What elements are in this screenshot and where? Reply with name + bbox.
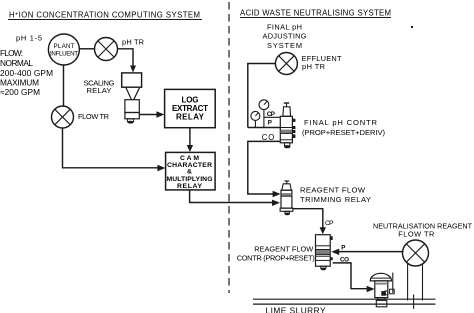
svg-text:200-400 GPM: 200-400 GPM — [0, 68, 53, 78]
label SCALING RELAY — [84, 78, 115, 95]
svg-text:RELAY: RELAY — [176, 113, 205, 122]
dashed system divider line — [228, 2, 230, 293]
svg-text:EXTRACT: EXTRACT — [172, 104, 208, 113]
svg-text:&: & — [187, 169, 192, 176]
svg-text:CP: CP — [325, 220, 334, 227]
scaling relay cylinder — [125, 100, 139, 124]
title left: H+ION CONCENTRATION COMPUTING SYSTEM — [8, 11, 202, 20]
effluent pH transmitter circle — [275, 53, 297, 75]
label FINAL pH CONTR (PROP+RESET+DERIV) — [302, 118, 385, 137]
svg-text:pH 1-5: pH 1-5 — [16, 33, 42, 42]
svg-text:RELAY: RELAY — [87, 86, 112, 95]
svg-text:≈200 GPM: ≈200 GPM — [0, 87, 40, 97]
node CP line into final pH controller — [264, 116, 281, 118]
scaling relay funnel — [126, 88, 140, 100]
svg-text:FINAL pH: FINAL pH — [267, 22, 302, 31]
scaling relay box — [122, 73, 142, 87]
wire trimming relay to reagent flow controller (with arrow) — [293, 209, 326, 235]
final pH controller U1 — [280, 103, 295, 149]
wire flow TR to cam relay (with arrow) — [63, 128, 166, 171]
svg-text:MULTIPLYING: MULTIPLYING — [167, 176, 213, 183]
svg-text:H+ION CONCENTRATION COMPUTING: H+ION CONCENTRATION COMPUTING SYSTEM — [9, 11, 200, 20]
neutralisation reagent flow transmitter circle — [403, 240, 429, 266]
svg-text:pH TR: pH TR — [302, 62, 325, 71]
svg-text:P: P — [341, 244, 345, 251]
svg-text:NORMAL: NORMAL — [0, 58, 33, 68]
reagent flow trimming relay device — [280, 181, 293, 216]
title right: ACID WASTE NEUTRALISING SYSTEM — [240, 8, 391, 17]
gauge P (pressure indicator) — [251, 111, 260, 127]
wire plant influent to pH TR — [80, 48, 96, 50]
wire effluent pH TR to final pH controller P port — [248, 64, 276, 128]
pipe risers from flow TR to lime slurry pipe — [408, 264, 423, 301]
svg-text:FLOW TR: FLOW TR — [78, 112, 109, 121]
control valve V1 — [370, 273, 394, 307]
svg-text:INFLUENT: INFLUENT — [50, 51, 78, 58]
wire controller CO to valve (with arrow) — [333, 263, 375, 292]
wire neutralisation reagent flow TR to controller P input (with arrow) — [331, 249, 403, 255]
svg-text:FLOW:: FLOW: — [0, 48, 23, 58]
svg-text:ADJUSTING: ADJUSTING — [263, 32, 307, 41]
svg-text:SYSTEM: SYSTEM — [267, 41, 302, 50]
svg-text:(PROP+RESET+DERIV): (PROP+RESET+DERIV) — [302, 128, 385, 137]
svg-text:LIME SLURRY: LIME SLURRY — [266, 306, 326, 313]
pipe lime slurry (double line) — [253, 299, 436, 304]
log extract relay box — [165, 89, 216, 127]
svg-text:TRIMMING RELAY: TRIMMING RELAY — [300, 195, 371, 204]
node P line into final pH controller — [248, 127, 281, 129]
wire log extract relay to cam relay (with arrow) — [187, 128, 193, 152]
label EFFLUENT pH TR — [302, 54, 342, 71]
cam character & multiplying relay box — [166, 152, 216, 190]
gauge CP (pressure indicator) — [259, 100, 269, 128]
svg-text:P: P — [268, 120, 272, 127]
flow transmitter circle (FLOW TR) — [52, 106, 74, 128]
label REAGENT FLOW CONTR (PROP+RESET) — [237, 245, 315, 263]
svg-text:ACID WASTE NEUTRALISING SYSTEM: ACID WASTE NEUTRALISING SYSTEM — [240, 8, 391, 17]
wire cam relay to reagent flow trimming relay (with arrow) — [190, 190, 280, 206]
plant influent circle — [48, 34, 79, 65]
pipe joint tick — [413, 295, 415, 309]
svg-text:PLANT: PLANT — [54, 43, 75, 50]
svg-text:pH TR: pH TR — [122, 38, 144, 47]
label NEUTRALISATION REAGENT FLOW TR — [373, 221, 473, 238]
svg-text:FLOW TR: FLOW TR — [398, 230, 434, 239]
svg-text:CONTR (PROP+RESET): CONTR (PROP+RESET) — [237, 254, 315, 263]
wire pH TR to scaling relay (with arrow) — [118, 49, 137, 73]
pH transmitter circle (pH TR) — [95, 38, 118, 61]
svg-text:MAXIMUM: MAXIMUM — [0, 78, 39, 88]
svg-text:FINAL pH CONTR: FINAL pH CONTR — [304, 118, 378, 127]
svg-text:REAGENT FLOW: REAGENT FLOW — [254, 245, 313, 254]
svg-text:RELAY: RELAY — [177, 183, 202, 190]
svg-text:REAGENT FLOW: REAGENT FLOW — [300, 186, 366, 195]
wire plant influent down to flow TR — [63, 65, 65, 106]
wire CO output of final pH controller down to trimming relay (with arrow) — [248, 141, 281, 197]
label REAGENT FLOW TRIMMING RELAY — [300, 186, 371, 205]
reagent flow controller U2 — [316, 235, 333, 271]
label FINAL pH ADJUSTING SYSTEM — [263, 22, 307, 50]
wire scaling relay to log extract relay (with arrow) — [139, 111, 164, 117]
speck — [411, 26, 413, 28]
